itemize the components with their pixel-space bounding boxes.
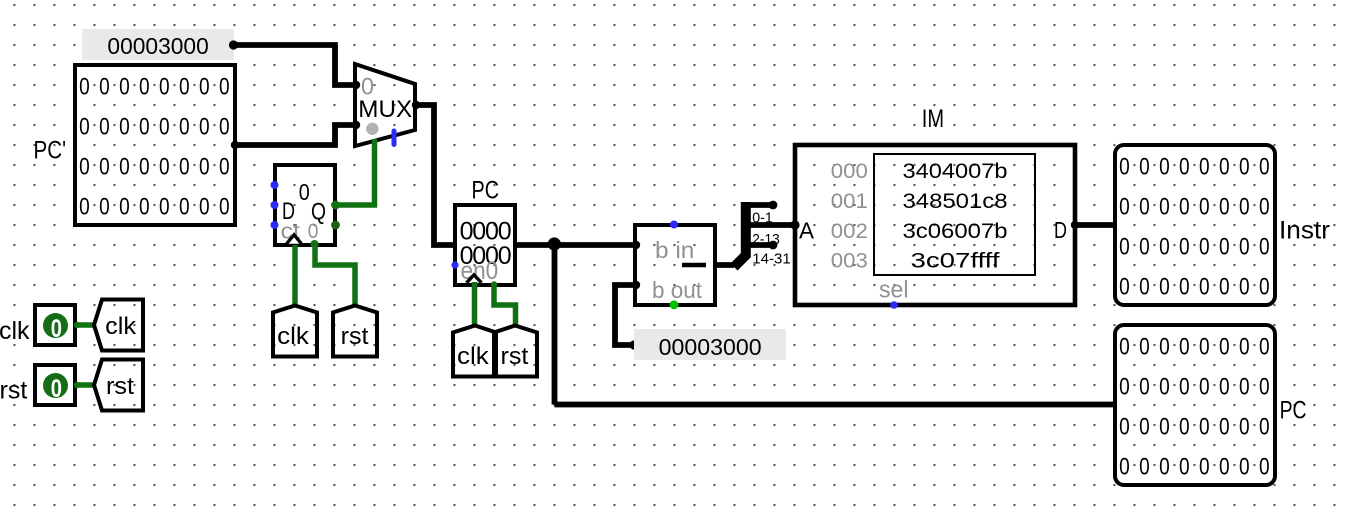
unconnected input pins (blue) on D/Q register [271,181,279,189]
data window [874,154,1035,275]
svg-text:0: 0 [51,315,62,343]
wire: PC clock to clk tunnel (green) [472,282,478,325]
pin dot at (235,145) [231,141,239,149]
svg-text:PC: PC [1280,397,1307,425]
svg-text:D: D [1054,217,1067,243]
unconnected pin (green) bottom of b box [670,300,679,309]
mux MUX [355,64,415,146]
tunnel rst (left) [94,360,143,411]
unconnected sel pin (blue) [890,301,898,309]
splitter bar [734,202,746,267]
svg-text:002: 002 [831,220,868,243]
svg-text:PC': PC' [34,137,67,165]
svg-text:sel: sel [879,277,909,304]
svg-text:clk: clk [457,343,490,370]
svg-text:clk: clk [105,313,137,340]
svg-text:3c07ffff: 3c07ffff [911,250,1000,273]
svg-text:3c06007b: 3c06007b [903,220,1008,243]
svg-text:00000000: 00000000 [79,152,239,180]
tunnel clk (left) [94,300,143,351]
pin dot b out [632,281,640,289]
green pin dot [311,240,319,248]
svg-text:MUX: MUX [358,96,412,123]
svg-text:0: 0 [51,375,62,403]
svg-text:00000000: 00000000 [1119,192,1279,220]
junction dot at label anchor (233,45) [229,40,238,49]
wire: bottom run to PC display [555,402,1116,408]
display PC' (binary output display) [75,65,239,225]
wire: register rst to rst tunnel (green) [315,245,355,306]
wire: top label to MUX input 0 [233,45,356,85]
label anchor dot [629,340,638,349]
wire: b out to bottom label [615,285,635,345]
svg-text:IM: IM [922,105,944,133]
svg-text:rst: rst [0,377,27,405]
pin dot at IM D output [1071,221,1079,229]
svg-text:00003000: 00003000 [659,334,762,360]
wire: b box output to splitter [715,262,734,268]
register D/Q (flip-flop ct) [275,165,335,245]
svg-text:3404007b: 3404007b [903,160,1008,183]
svg-text:rst: rst [106,373,134,400]
svg-text:00000000: 00000000 [1119,232,1279,260]
svg-text:00003000: 00003000 [107,33,208,59]
splitter stub 14-31 (dead end) [746,242,772,248]
clock edge marker [467,275,482,283]
display Instr [1115,145,1279,305]
green pin dot [491,281,497,287]
display PC (bottom right) [1115,325,1279,485]
svg-text:00000000: 00000000 [1119,452,1279,480]
label 00003000 (bottom probe) [634,329,786,360]
svg-text:00000000: 00000000 [1119,332,1279,360]
wire: MUX output to PC register D [415,105,455,245]
svg-text:A: A [799,218,815,244]
wire: PC' display output to MUX input 1 [235,125,356,145]
wire: PC output to splitter-b input [515,242,635,248]
svg-text:clk: clk [0,317,30,345]
splitter stub 0-1 (dead end) [746,202,772,208]
svg-text:00000000: 00000000 [1119,412,1279,440]
port dash marker [682,263,706,268]
svg-text:clk: clk [277,323,310,350]
svg-text:00000000: 00000000 [1119,152,1279,180]
tunnel rst (under register) [333,306,377,357]
svg-text:PC: PC [472,177,500,205]
wire: IM D to Instr display [1075,222,1115,228]
svg-text:b out: b out [652,277,703,303]
svg-text:rst: rst [341,323,369,350]
svg-text:00000000: 00000000 [1119,372,1279,400]
wire: rst input to tunnel (green) [75,382,95,388]
svg-text:rst: rst [501,343,529,370]
junction node [548,237,561,250]
wire: register clock to clk tunnel (green) [292,245,298,306]
unconnected en pin (blue) [451,261,458,268]
svg-text:00000000: 00000000 [79,72,239,100]
label 00003000 (top probe) [82,29,234,60]
wire: PC rst to rst tunnel (green) [494,285,516,325]
clock edge marker [287,235,302,244]
pin dot MUX input 0 [352,81,360,89]
svg-text:00000000: 00000000 [79,192,239,220]
svg-text:003: 003 [831,250,868,273]
unconnected stub (blue) under MUX [392,131,397,145]
splitter stub 2-13 to IM A [746,222,795,228]
unconnected pin (blue) top of b box [670,221,678,229]
svg-text:00000000: 00000000 [79,112,239,140]
svg-text:001: 001 [831,190,868,213]
pin dot MUX input 1 [352,121,360,129]
mux select pin marker [366,123,378,135]
svg-text:0: 0 [299,179,310,205]
tunnel clk (under register) [273,306,317,357]
tunnel clk (under PC) [453,326,496,377]
svg-text:000: 000 [831,160,868,183]
wire: junction down [552,245,558,405]
svg-text:00000000: 00000000 [1119,272,1279,300]
tunnel rst (under PC) [494,326,537,377]
output pin dots (green) on D/Q register [331,201,340,210]
wire: clk input to tunnel (green) [75,322,95,328]
svg-text:348501c8: 348501c8 [903,190,1008,213]
pin dot b in [632,241,640,249]
svg-text:b in: b in [655,237,694,263]
svg-text:Instr: Instr [1279,217,1330,245]
bit extender b in / b out [635,225,715,305]
svg-text:0: 0 [308,219,319,243]
wire: Q output to MUX select (green) [335,139,375,205]
pin dot at IM A [790,220,799,229]
svg-text:14-31: 14-31 [752,251,791,268]
pin dot MUX output [412,101,420,109]
